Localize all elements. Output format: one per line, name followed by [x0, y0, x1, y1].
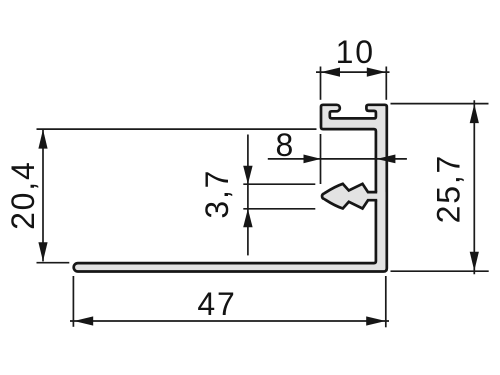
- svg-text:47: 47: [197, 286, 236, 322]
- svg-text:3,7: 3,7: [199, 169, 235, 219]
- svg-text:20,4: 20,4: [5, 160, 41, 229]
- svg-text:8: 8: [275, 127, 295, 163]
- svg-text:25,7: 25,7: [431, 154, 467, 223]
- svg-text:10: 10: [336, 34, 375, 70]
